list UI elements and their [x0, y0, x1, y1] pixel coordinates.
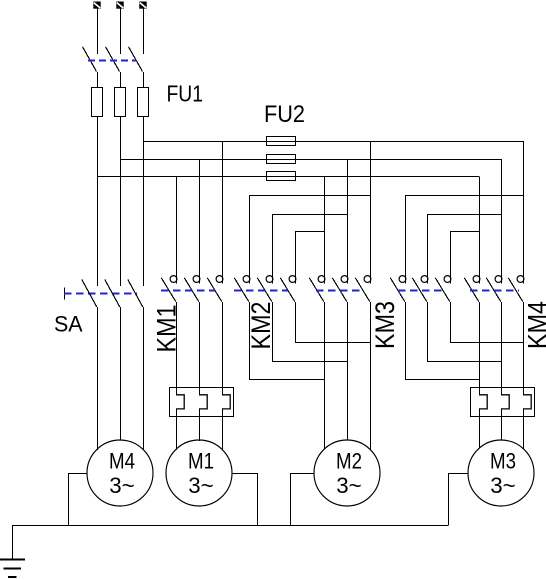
crossover wire right pole2 (to L2)	[427, 214, 501, 216]
svg-text:KM2: KM2	[246, 302, 276, 350]
svg-text:3~: 3~	[336, 473, 362, 498]
contact KM4 pole 3	[508, 276, 524, 302]
fuse FU1 element 1	[92, 88, 103, 117]
overload relay FR2 body	[471, 388, 535, 417]
FR2 heater element 3	[523, 395, 531, 409]
wire QS pole 3 to FU1	[143, 72, 145, 88]
switch SA pole 3 lever	[128, 280, 143, 307]
contact KM4 pole 2	[486, 276, 502, 302]
svg-text:M1: M1	[188, 449, 214, 474]
merge wire KM2p3-KM3p3	[295, 342, 370, 344]
svg-text:KM4: KM4	[523, 301, 546, 349]
wire bus L3 to KM1 pole3	[222, 141, 224, 284]
svg-text:FU2: FU2	[264, 101, 305, 128]
wire drop KM2 pole2	[272, 214, 274, 284]
fuse FU2 element 1	[267, 137, 296, 146]
wire KM3 pole2 to M2	[347, 302, 349, 441]
motor M4	[87, 440, 153, 506]
motor M1	[166, 440, 232, 506]
crossover wire KM2 pole3 (to L1)	[295, 231, 324, 233]
wire FR2 out3 to M3	[523, 409, 525, 449]
wire FR1 out3 to M1	[222, 409, 224, 449]
wire L2 drop to QS	[120, 9, 122, 54]
contact KM3b pole 3	[435, 276, 451, 302]
wire FR2 out2 to M3	[501, 409, 503, 441]
wire drop right pole3	[450, 232, 452, 284]
contact KM3b pole 2	[412, 276, 428, 302]
wire KM3 pole1 to M2	[324, 302, 326, 450]
fuse FU2 element 2	[267, 155, 296, 164]
KM2 linkage (blue dashed)	[234, 290, 288, 292]
contact KM3 pole 3	[355, 276, 371, 302]
wire bus L2 to KM4 pole2	[501, 159, 503, 284]
wire L2 (x120) FU1 to SA	[120, 117, 122, 286]
wire bus L2 to KM3 pole2	[347, 159, 349, 284]
KM3b linkage (blue dashed)	[398, 290, 444, 292]
supply terminal L1	[93, 2, 100, 9]
supply terminal L3	[139, 2, 146, 9]
wire KM4 pole1 to FR2	[479, 302, 481, 395]
ground symbol	[0, 525, 25, 577]
ground bus	[12, 525, 448, 527]
disconnect switch QS pole 2 lever	[106, 47, 120, 72]
QS linkage (blue dashed)	[88, 60, 136, 62]
svg-text:SA: SA	[54, 312, 83, 337]
svg-text:M4: M4	[109, 449, 135, 474]
wire drop right pole2	[427, 214, 429, 284]
wire KM2 pole3 down	[295, 302, 297, 342]
crossover wire KM2 pole1 (to L3)	[249, 195, 370, 197]
wire KM3b pole1 down	[405, 302, 407, 379]
merge wire KM2p1-KM3p1	[249, 379, 324, 381]
wire bus L3 to KM4 pole3	[523, 141, 525, 284]
svg-text:FU1: FU1	[167, 81, 204, 107]
contact KM2 pole 1	[234, 276, 250, 302]
wire bus L2 to KM1 pole2	[199, 159, 201, 284]
wire KM1 pole2 to FR1	[199, 302, 201, 395]
wire QS pole 2 to FU1	[120, 72, 122, 88]
disconnect switch QS pole 1 lever	[83, 47, 97, 72]
wire FR1 out1 to M1	[176, 409, 178, 450]
FR2 heater element 1	[479, 395, 487, 409]
wire KM3b pole2 down	[427, 302, 429, 362]
wire bus L1 to KM1 pole1	[176, 177, 178, 284]
contact KM2 pole 2	[257, 276, 273, 302]
ground arm M4	[69, 474, 88, 526]
wire SA pole1 to M4	[97, 307, 99, 450]
wire bus L3 to KM3 pole3	[370, 141, 372, 284]
merge wire right p2	[427, 361, 501, 363]
svg-text:3~: 3~	[490, 473, 516, 498]
wire FR1 out2 to M1	[199, 409, 201, 441]
KM3 linkage (blue dashed)	[316, 290, 362, 292]
wire drop KM2 pole3	[295, 232, 297, 284]
wire KM4 pole3 to FR2	[523, 302, 525, 395]
overload relay FR1 body	[170, 388, 234, 417]
svg-text:M3: M3	[490, 449, 516, 474]
svg-text:3~: 3~	[109, 473, 135, 498]
motor M3	[468, 440, 534, 506]
disconnect switch QS pole 3 lever	[129, 47, 143, 72]
wire drop KM2 pole1	[249, 196, 251, 284]
fuse FU1 element 2	[115, 88, 126, 117]
merge wire right p3	[450, 342, 523, 344]
wire KM4 pole2 to FR2	[501, 302, 503, 395]
bus L2 (y159)	[120, 159, 501, 161]
contact KM1 pole 3	[207, 276, 223, 302]
motor M2	[314, 440, 380, 506]
contact KM3 pole 2	[332, 276, 348, 302]
wire FR2 out1 to M3	[479, 409, 481, 449]
contact KM1 pole 2	[184, 276, 200, 302]
wire SA pole3 to M4	[143, 307, 145, 449]
crossover wire right pole3 (to L1)	[450, 231, 479, 233]
wire KM1 pole1 to FR1	[176, 302, 178, 395]
FR1 heater element 3	[222, 395, 230, 409]
KM4 linkage (blue dashed)	[470, 290, 519, 292]
wire KM2 pole1 down	[249, 302, 251, 379]
wire QS pole 1 to FU1	[97, 72, 99, 88]
crossover wire KM2 pole2 (to L2)	[272, 214, 347, 216]
contact KM4 pole 1	[464, 276, 480, 302]
svg-text:3~: 3~	[188, 473, 214, 498]
svg-text:KM3: KM3	[370, 301, 400, 349]
FR1 heater element 1	[176, 395, 184, 409]
wire L1 (x97) FU1 to SA	[97, 117, 99, 286]
bus L3 (y141)	[143, 141, 523, 143]
ground arm M1	[232, 474, 258, 526]
switch SA linkage (blue dashed)	[64, 293, 137, 295]
wire L3 drop to QS	[143, 9, 145, 54]
fuse FU1 element 3	[138, 88, 149, 117]
wire drop right pole1	[405, 196, 407, 284]
wire KM3b pole3 down	[450, 302, 452, 342]
wire KM1 pole3 to FR1	[222, 302, 224, 395]
ground arm M2	[291, 474, 315, 526]
switch SA pole 2 lever	[105, 280, 120, 307]
wire bus L1 to KM4 pole1	[479, 177, 481, 284]
switch SA pole 1 lever	[82, 280, 97, 307]
wire SA pole2 to M4	[120, 307, 122, 441]
contact KM1 pole 1	[161, 276, 177, 302]
crossover wire right pole1 (to L3)	[405, 195, 523, 197]
svg-text:M2: M2	[336, 449, 362, 474]
FR2 heater element 2	[501, 395, 509, 409]
contact KM3b pole 1	[390, 276, 406, 302]
FR1 heater element 2	[199, 395, 207, 409]
wire L3 (x143) FU1 to SA	[143, 117, 145, 286]
KM1 linkage (blue dashed)	[161, 290, 215, 292]
contact KM3 pole 1	[309, 276, 325, 302]
ground arm M3	[449, 474, 469, 526]
merge wire right p1	[405, 379, 479, 381]
wire bus L1 to KM3 pole1	[324, 177, 326, 284]
wire L1 drop to QS	[97, 9, 99, 54]
svg-text:KM1: KM1	[152, 305, 182, 353]
wire KM2 pole2 down	[272, 302, 274, 362]
switch SA handle bar	[64, 288, 66, 300]
contact KM2 pole 3	[280, 276, 296, 302]
fuse FU2 element 3	[267, 172, 296, 181]
merge wire KM2p2-KM3p2	[272, 361, 347, 363]
bus L1 (y176.5)	[97, 176, 479, 178]
wire KM3 pole3 to M2	[370, 302, 372, 450]
supply terminal L2	[116, 2, 123, 9]
